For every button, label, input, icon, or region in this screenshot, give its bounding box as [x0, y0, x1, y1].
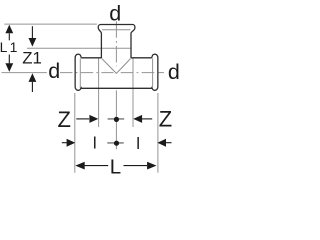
extension line: branch insertion depth plane — [27, 47, 130, 49]
center stub row l — [107, 142, 123, 144]
dimension L1 upper arrow — [8, 33, 10, 40]
dimension l left arrow — [62, 142, 67, 144]
extension line: top of branch — [4, 23, 97, 25]
svg-text:L: L — [110, 156, 121, 179]
run top wall left — [81, 57, 101, 59]
svg-text:d: d — [48, 59, 60, 83]
branch socket left wall — [100, 33, 102, 59]
center stub row Z — [108, 118, 125, 120]
dimension Z1 lower arrow — [31, 82, 33, 92]
dimension l right arrow — [157, 139, 166, 147]
svg-text:l: l — [136, 134, 140, 153]
dimension L left arrow — [75, 162, 84, 170]
dimension Z1 upper arrow — [31, 26, 33, 38]
center dot row l — [114, 141, 119, 146]
left socket bead — [75, 54, 81, 90]
dimension L1 lower arrow — [8, 55, 10, 64]
dimension L right arrow — [124, 165, 148, 167]
extension line: right socket depth — [132, 58, 134, 127]
left bead inner boundary — [79, 58, 81, 88]
svg-text:Z: Z — [159, 107, 172, 132]
tee junction miter V lines — [102, 59, 131, 74]
svg-text:l: l — [93, 134, 97, 153]
center dot row Z — [114, 117, 119, 122]
dimension Z left arrow — [76, 118, 89, 120]
branch socket right wall — [130, 33, 132, 59]
svg-text:d: d — [168, 60, 180, 84]
svg-text:d: d — [109, 1, 121, 25]
extension line: run centerline far left — [2, 72, 47, 74]
extension line: left socket depth — [98, 58, 100, 127]
centerline: horizontal run dash-dot — [60, 72, 114, 74]
svg-text:Z: Z — [58, 107, 71, 132]
branch bead (press end) — [98, 25, 135, 33]
extension line: left end — [74, 93, 76, 173]
extension line: branch center below body — [115, 90, 117, 149]
run top wall right — [131, 57, 152, 59]
right socket bead — [152, 54, 158, 90]
svg-text:L1: L1 — [0, 39, 20, 55]
svg-text:Z1: Z1 — [22, 49, 42, 68]
extension line: right end — [157, 93, 159, 173]
run bottom wall — [81, 87, 152, 89]
branch bead inner boundary — [102, 29, 131, 31]
dimension Z right arrow — [142, 118, 152, 120]
centerline: branch vertical dash-dot — [115, 21, 117, 66]
right bead inner boundary — [152, 58, 154, 88]
